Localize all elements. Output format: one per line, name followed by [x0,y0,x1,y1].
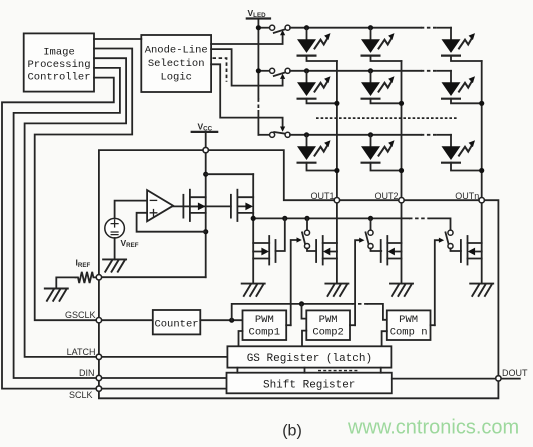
wire comp n output stub [431,324,435,326]
IC boundary outline [99,150,499,398]
svg-text:OUT2: OUT2 [374,191,398,201]
ground under Q2 [390,284,413,296]
pin SCLK [96,386,101,391]
pin IREF [96,275,101,280]
node dot VCC branch [203,172,208,177]
wire comp2 output stub [350,324,355,326]
bus connector shift to GS 1 [236,368,238,373]
LED D3n row3 col3 [442,135,482,171]
LED D12 row1 col2 [361,28,402,61]
svg-text:Processing: Processing [27,59,90,71]
LED D31 row3 col1 [297,135,337,171]
LED D1n row1 col3 [442,28,482,61]
arrow PWM1 control [291,237,302,325]
wire GS register to comp n [382,331,387,346]
transistor M2 [231,190,253,221]
VCC supply label [192,121,218,132]
dashed row continuation separator [316,117,457,119]
svg-text:SCLK: SCLK [69,390,93,400]
svg-text:PWM: PWM [255,314,274,326]
VLED rail wire [257,19,259,99]
svg-text:OUTn: OUTn [455,191,479,201]
wire op-amp output to M1 gate [173,205,231,207]
wire VREF to ground [114,238,116,259]
pin OUTn [479,198,484,203]
svg-text:Controller: Controller [27,72,90,84]
block PWM Comp1 [243,310,287,340]
ground under Qn [470,284,493,296]
LED D11 row1 col1 [297,28,337,61]
VLED rail dashed continuation [257,98,259,111]
wire IREF resistor to ground [56,277,75,288]
arrow PWMn control [435,238,444,326]
VLED supply label [247,8,270,19]
svg-text:Comp1: Comp1 [249,327,281,339]
wire DOUT [392,378,520,380]
anode row line 3 [290,134,421,136]
svg-text:PWM: PWM [399,314,418,326]
LED D32 row3 col2 [361,135,402,171]
switch S3 anode row 3 [258,132,290,137]
svg-text:VREF: VREF [121,238,139,249]
block Shift Register [227,373,392,394]
block Counter [153,310,201,334]
anode row line 1 [290,27,421,29]
wire rail down to IREF pin [101,276,206,278]
switch PWM1 [302,218,316,251]
wire GS register to comp2 [302,331,306,347]
svg-text:Shift Register: Shift Register [263,379,355,391]
cathode column rail OUT1 [336,61,338,284]
wire GS register to comp1 [239,331,243,346]
switch PWMn [446,230,461,251]
svg-text:IREF: IREF [76,258,91,269]
dashed continuation control wire [213,58,227,82]
svg-text:DOUT: DOUT [502,368,528,378]
pin DIN [96,375,101,380]
bus connector shift to GS 2 [304,368,306,373]
block Anode-Line Selection Logic [141,35,211,92]
wire controller to GSCLK pin and Counter [35,49,153,321]
wire controller to LATCH pin and GS register [25,58,228,357]
switch S2 anode row 2 [260,68,290,76]
switch S1 anode row 1 [260,25,290,33]
svg-text:GSCLK: GSCLK [65,310,96,320]
pin GSCLK [96,318,101,323]
transistor Qn [461,236,482,265]
svg-text:Comp n: Comp n [390,327,428,339]
node dot counter branch [229,318,234,323]
arrow PWM2 control [355,238,364,326]
block PWM Comp2 [306,310,350,340]
dashed bus marks [318,370,358,372]
LED D22 row2 col2 [361,71,402,104]
wire controller to DIN pin and shift register [14,68,227,378]
svg-text:Image: Image [43,47,75,59]
svg-text:www.cntronics.com: www.cntronics.com [347,417,519,439]
svg-text:(b): (b) [282,423,302,440]
wire ref driver gate riser [276,218,285,251]
node dots VLED rail and row lines [256,25,261,30]
svg-text:PWM: PWM [319,314,338,326]
svg-text:GS Register (latch): GS Register (latch) [247,353,372,365]
transistor Q2 [381,236,402,265]
wire logic to row2 switch control [211,49,285,86]
block GS Register (latch) [227,346,391,367]
junction dots column rails [334,101,339,106]
op-amp U1 [147,190,173,221]
ground under ref driver [242,284,265,296]
wire logic to row1 switch control [211,30,285,44]
wire controller to SCLK pin and shift register [2,78,227,389]
wire feedback to op-amp + input [137,213,206,232]
node dot feedback junction [203,229,208,234]
node dots gate bias rail [251,216,256,221]
wire VCC stem [205,132,207,277]
svg-text:Selection: Selection [148,58,205,70]
cathode column rail OUTn [481,61,483,284]
ground under Q1 [325,284,348,296]
pin LATCH [96,354,101,359]
resistor IREF [76,258,97,283]
svg-text:Comp2: Comp2 [312,327,344,339]
ground at IREF [45,289,68,301]
wire logic to row3 switch control [211,64,285,132]
wire counter overhead distribution [232,304,352,320]
anode row line 2 [290,70,421,72]
ground under VREF [103,259,126,271]
LED D2n row2 col3 [442,71,482,104]
pin VCC [203,147,208,152]
transistor M1 [183,190,205,221]
VLED rail wire to row 3 [257,111,259,135]
pin DOUT [496,376,501,381]
wire counter drop to comp2 [302,304,307,319]
voltage source VREF [105,218,139,249]
svg-text:OUT1: OUT1 [310,191,334,201]
bus connector shift to GS 3 [380,368,382,373]
transistor Q1 [316,236,337,265]
pin OUT2 [399,198,404,203]
LED D21 row2 col1 [297,71,337,104]
wire counter output [200,319,242,321]
block Image Processing Controller [24,33,94,91]
node dot overhead branch [299,301,304,306]
wire controller to logic box [94,38,141,40]
svg-text:DIN: DIN [79,368,95,378]
svg-text:Anode-Line: Anode-Line [145,45,208,57]
svg-text:LATCH: LATCH [67,347,96,357]
cathode column rail OUT2 [401,61,403,284]
pin OUT1 [334,198,339,203]
wire VCC to mirror M2 drain [206,173,254,175]
gate bias rail [253,217,409,219]
switch PWM2 [366,218,382,251]
transistor ref driver diode-connected [253,236,275,265]
wire mirror rail M2/ref driver [252,174,254,283]
svg-text:Logic: Logic [160,72,192,84]
wire VREF to op-amp - input [115,201,148,219]
block PWM Comp n [387,310,431,340]
wire comp1 output stub [286,324,291,326]
svg-text:Counter: Counter [154,319,198,331]
